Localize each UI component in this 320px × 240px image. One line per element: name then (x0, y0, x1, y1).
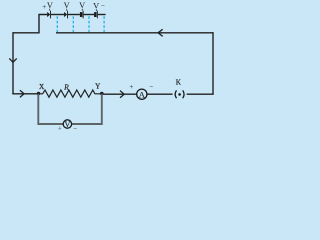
svg-text:−: − (101, 2, 105, 10)
wire: left vertical down to bottom row (12, 32, 14, 94)
ammeter A circle (137, 89, 147, 99)
battery cell 4 thin plate (96, 11, 99, 19)
svg-text:−: − (73, 126, 77, 133)
dashed tap line 1 (56, 16, 58, 32)
wire: battery left lead (top wire to left step down) (13, 15, 47, 33)
wire: bottom left horizontal into node X (12, 93, 38, 95)
svg-text:Y: Y (95, 83, 101, 91)
wire: between cell 1 and cell 2 (51, 14, 64, 16)
wire: right stub after cell 4 (98, 14, 106, 16)
wire: between cell 3 and cell 4 (84, 14, 95, 16)
battery cell 2 thin plate (66, 11, 69, 19)
svg-text:X: X (39, 83, 45, 91)
tick under V of cell 2 (65, 9, 68, 11)
battery cell 2 thick plate (64, 12, 67, 17)
svg-text:V: V (64, 120, 70, 129)
key K right contact arc (183, 90, 184, 98)
wire: right vertical (212, 32, 214, 94)
arrow: current direction right before ammeter (120, 91, 124, 98)
resistor R zigzag (39, 90, 102, 97)
battery cell 3 thin plate (82, 11, 85, 19)
wire: from node Y to ammeter (102, 93, 137, 95)
svg-text:V: V (64, 1, 70, 10)
key K left contact arc (175, 90, 176, 98)
node Y junction dot (100, 92, 104, 96)
battery cell 1 thick plate (47, 12, 50, 17)
node X junction dot (37, 92, 41, 96)
svg-text:+: + (42, 3, 46, 11)
tick under V of cell 4 (95, 9, 98, 11)
tick under V of cell 3 (81, 9, 84, 11)
svg-text:V: V (93, 1, 99, 10)
dashed tap line 4 (103, 16, 105, 32)
wire: bottom right from key to right vertical (187, 93, 214, 95)
svg-text:K: K (176, 79, 182, 87)
dashed tap line 2 (72, 16, 74, 32)
key K plug dot (178, 93, 181, 96)
svg-text:+: + (129, 83, 133, 91)
voltmeter V circle (63, 120, 71, 128)
battery cell 3 thick plate (80, 12, 83, 17)
battery cell 4 thick plate (94, 12, 97, 17)
battery cell 1 thin plate (49, 11, 52, 19)
wire: from ammeter to key (147, 93, 172, 95)
arrow: current direction right before node X (20, 90, 24, 97)
wire: top rail (56, 32, 213, 34)
svg-text:+: + (58, 126, 62, 133)
dashed tap line 3 (88, 16, 90, 32)
voltmeter loop wire (38, 94, 102, 124)
wire: between cell 2 and cell 3 (68, 14, 80, 16)
svg-text:V: V (47, 1, 53, 10)
svg-text:V: V (79, 1, 85, 10)
tick under V of cell 1 (48, 9, 51, 11)
svg-text:A: A (139, 89, 146, 99)
arrow: current direction down on left vertical (9, 58, 16, 62)
svg-text:R: R (63, 82, 69, 91)
svg-text:−: − (149, 83, 153, 91)
arrow: current direction left on top rail (158, 29, 163, 36)
